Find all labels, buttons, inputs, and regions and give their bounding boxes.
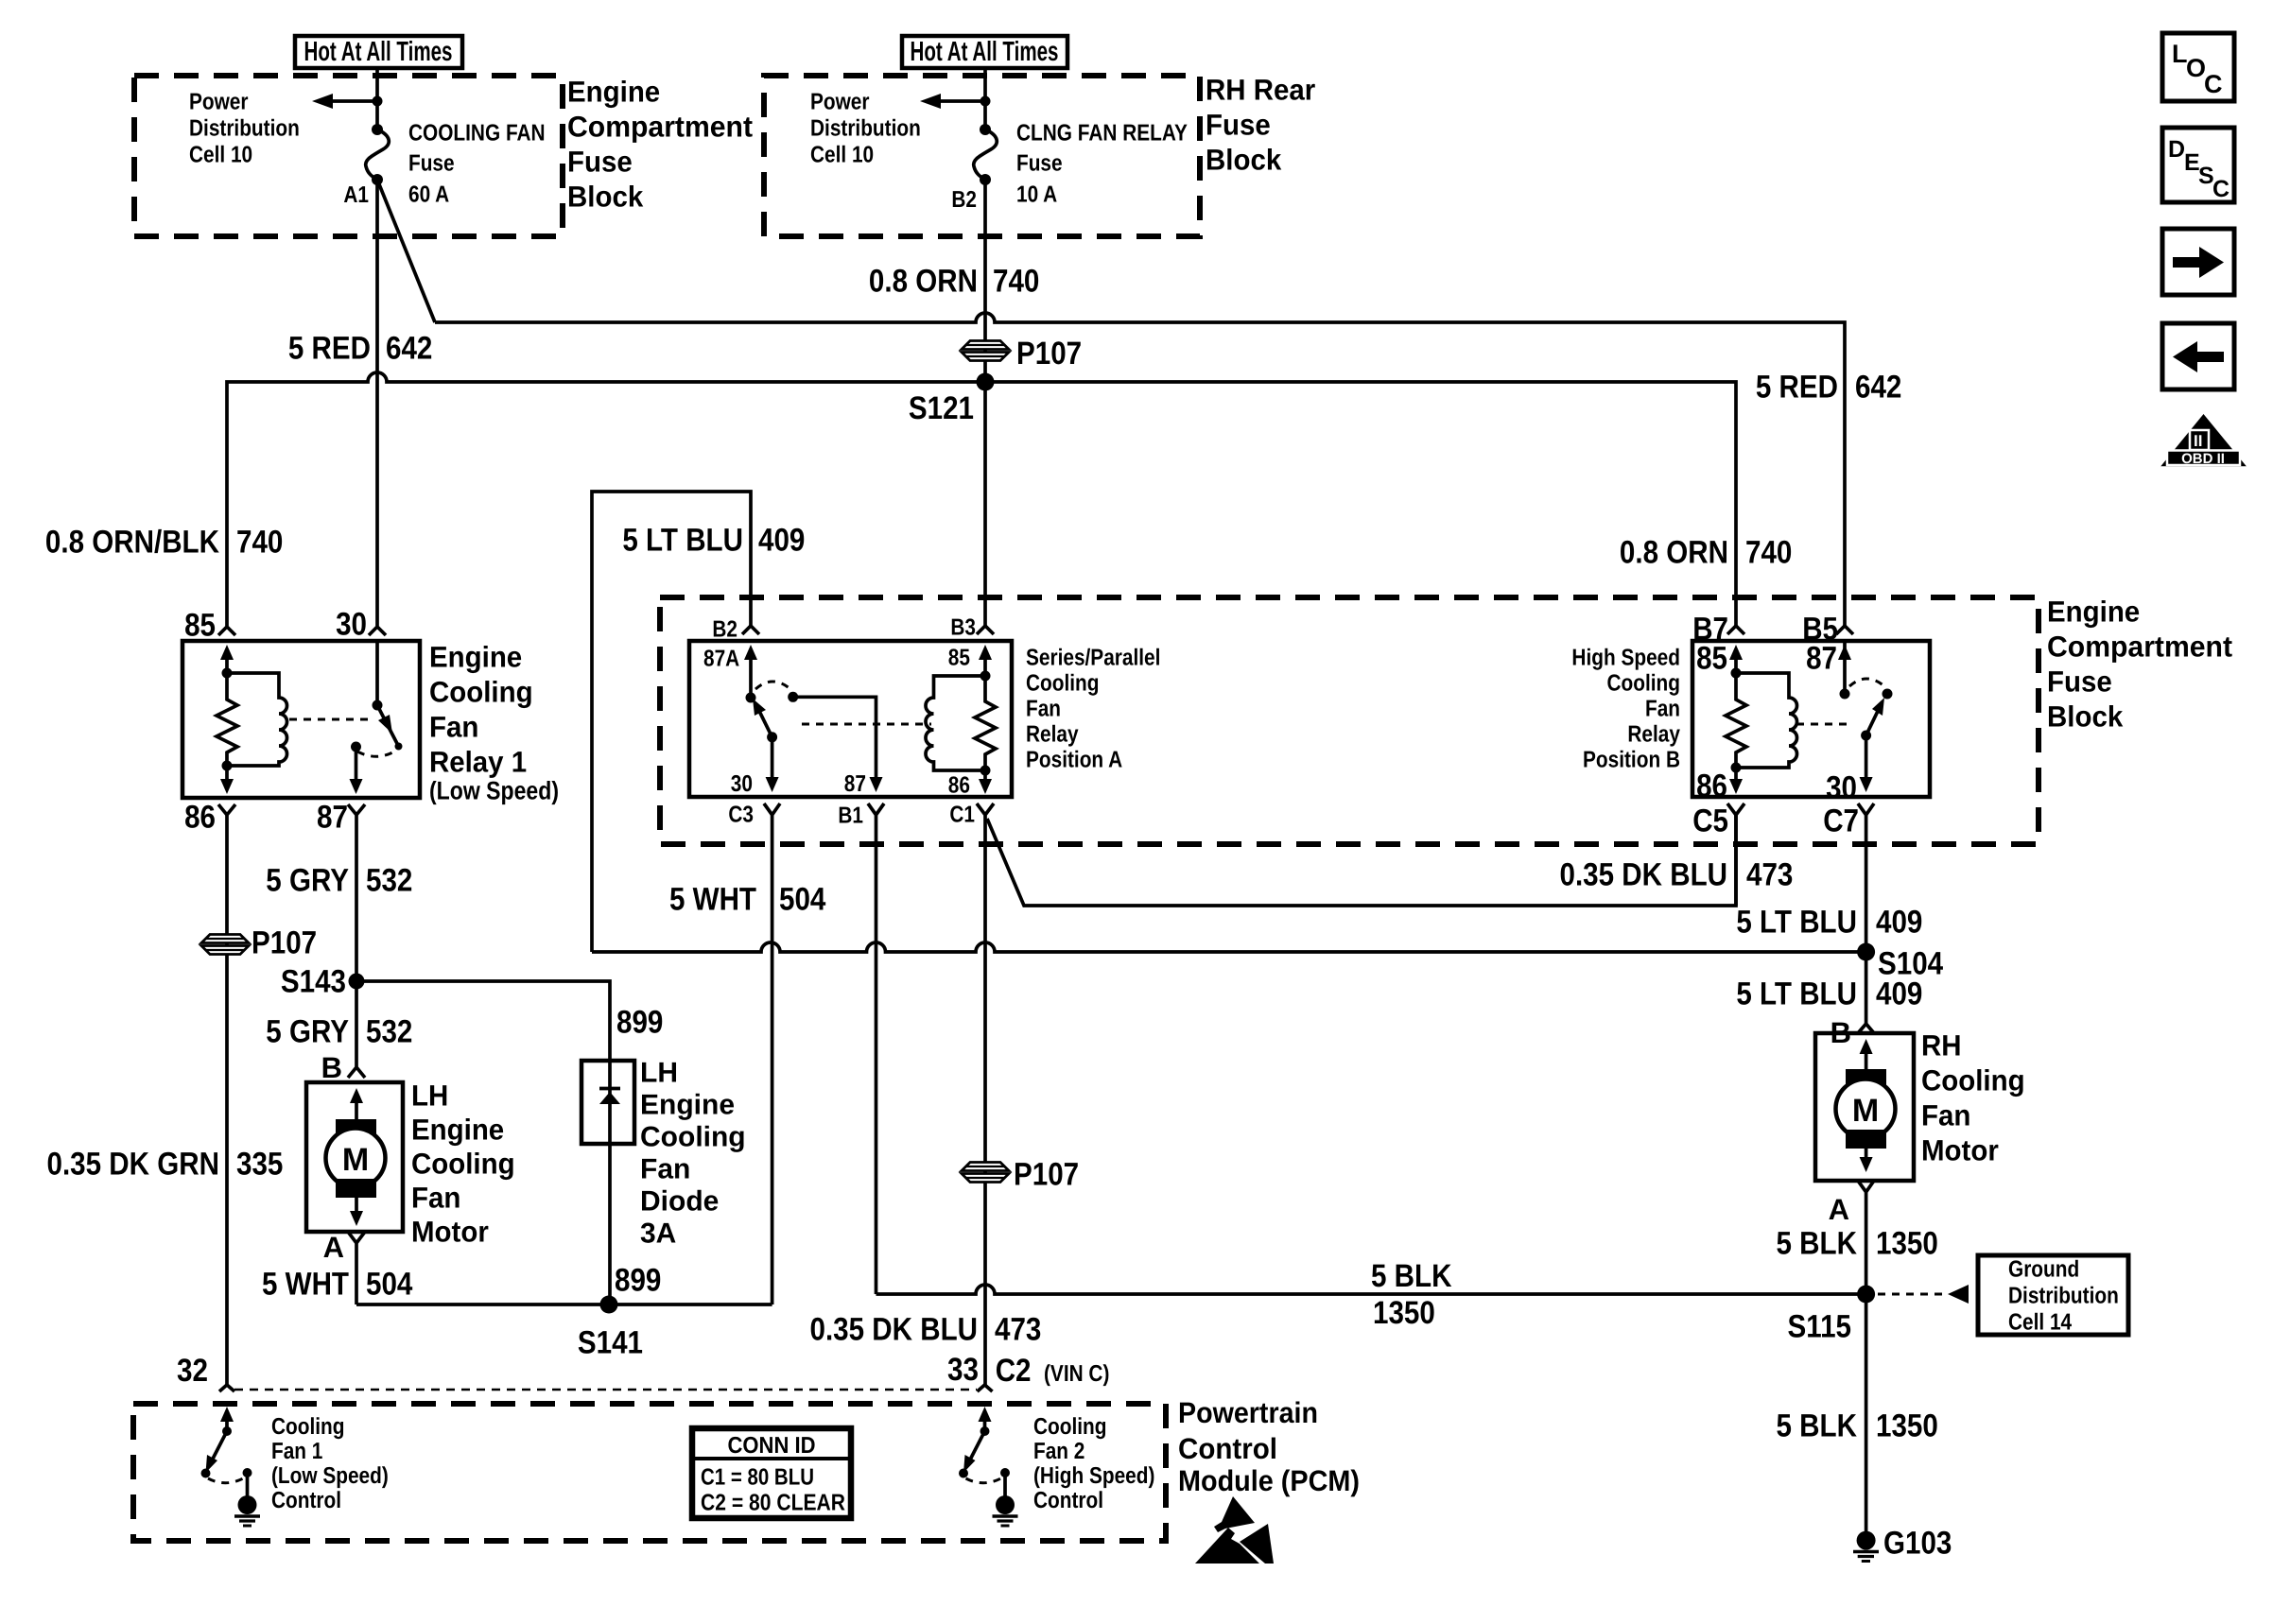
- wire: S143 to diode (899): [356, 981, 610, 1061]
- svg-text:0.35 DK GRN: 0.35 DK GRN: [47, 1147, 220, 1183]
- svg-text:A1: A1: [343, 182, 369, 208]
- svg-text:Position B: Position B: [1583, 748, 1680, 773]
- relay K2 coil-switch dashed link: [802, 723, 931, 726]
- relay K2 pin 87A arrow: [744, 645, 757, 698]
- svg-text:O: O: [2186, 54, 2206, 82]
- label 0.35 DK BLU 473 (bottom): [810, 1312, 1042, 1348]
- svg-text:10 A: 10 A: [1016, 182, 1057, 208]
- svg-text:Engine: Engine: [640, 1090, 735, 1121]
- svg-text:P107: P107: [1016, 336, 1082, 371]
- svg-text:COOLING FAN: COOLING FAN: [408, 121, 546, 147]
- terminal B2 caret: [742, 626, 759, 634]
- svg-text:473: 473: [1746, 857, 1793, 893]
- label: Engine Cooling Fan Relay 1 (Low Speed): [429, 641, 559, 805]
- svg-text:CONN ID: CONN ID: [728, 1433, 816, 1459]
- label 5 WHT 504 (LH motor A): [262, 1267, 412, 1303]
- svg-text:G103: G103: [1883, 1526, 1952, 1562]
- label 5 RED 642 (left): [288, 331, 433, 367]
- LH motor box: [306, 1082, 403, 1232]
- svg-text:C7: C7: [1823, 803, 1859, 839]
- diode CR1 box (LH Engine Cooling Fan Diode 3A): [581, 1061, 634, 1144]
- label 0.35 DK GRN 335: [47, 1147, 284, 1183]
- label 5 GRY 532 (upper): [266, 863, 412, 899]
- svg-text:Cooling: Cooling: [271, 1414, 345, 1440]
- svg-text:Control: Control: [1178, 1432, 1277, 1465]
- svg-text:LH: LH: [640, 1058, 678, 1089]
- DESC icon box: [2162, 128, 2234, 202]
- svg-text:Fan: Fan: [1921, 1099, 1970, 1132]
- terminal C5 caret: [1727, 803, 1744, 906]
- svg-text:85: 85: [184, 608, 216, 644]
- ground (cooling fan 1 control): [234, 1495, 260, 1526]
- svg-text:5 LT BLU: 5 LT BLU: [1736, 976, 1857, 1012]
- label: Series/Parallel Cooling Fan Relay Position A: [1026, 646, 1160, 773]
- diode CR1 symbol: [599, 1061, 620, 1144]
- power distribution arrow (left): [312, 94, 383, 109]
- svg-text:Fuse: Fuse: [1206, 109, 1271, 142]
- svg-text:Module (PCM): Module (PCM): [1178, 1464, 1360, 1497]
- relay K1 switch: [350, 641, 403, 794]
- svg-text:0.8 ORN: 0.8 ORN: [1620, 535, 1728, 571]
- svg-text:Motor: Motor: [411, 1216, 489, 1249]
- svg-text:Hot At All Times: Hot At All Times: [304, 37, 453, 67]
- label: Engine Compartment Fuse Block (top left): [567, 76, 753, 214]
- svg-text:504: 504: [366, 1267, 412, 1303]
- OBD II triangle icon: [2160, 414, 2247, 467]
- terminal 87 caret (bottom): [348, 804, 365, 981]
- svg-text:0.8 ORN: 0.8 ORN: [869, 264, 978, 300]
- relay K3 coil-switch dashed link: [1796, 723, 1851, 726]
- svg-text:Block: Block: [2047, 700, 2124, 734]
- svg-text:Engine: Engine: [567, 76, 660, 109]
- svg-text:5 BLK: 5 BLK: [1777, 1226, 1858, 1262]
- terminal B1 caret: [868, 803, 884, 1294]
- svg-text:740: 740: [993, 264, 1039, 300]
- label: LH Engine Cooling Fan Motor: [411, 1080, 515, 1249]
- label 5 GRY 532 (lower): [266, 1014, 412, 1050]
- svg-text:740: 740: [236, 525, 283, 561]
- label 5 LT BLU 409 (upper): [622, 523, 805, 559]
- svg-text:B2: B2: [712, 617, 737, 643]
- svg-text:5 GRY: 5 GRY: [266, 1014, 349, 1050]
- wire from hot box 2 down to fuse: [983, 68, 987, 130]
- label 0.8 ORN 740 (right): [1620, 535, 1793, 571]
- svg-text:Relay 1: Relay 1: [429, 746, 527, 779]
- relay K3 pin 85 arrow: [1729, 645, 1743, 679]
- svg-text:Cooling: Cooling: [1033, 1414, 1107, 1440]
- svg-text:Distribution: Distribution: [189, 116, 300, 142]
- svg-text:Cell 14: Cell 14: [2008, 1310, 2072, 1336]
- svg-text:30: 30: [336, 607, 367, 643]
- svg-text:Fuse: Fuse: [567, 146, 633, 179]
- svg-text:Fuse: Fuse: [408, 151, 455, 177]
- label: RH Cooling Fan Motor: [1921, 1029, 2025, 1167]
- svg-text:(Low Speed): (Low Speed): [429, 776, 559, 804]
- svg-text:Power: Power: [810, 90, 870, 115]
- svg-text:C1 = 80 BLU: C1 = 80 BLU: [701, 1465, 814, 1491]
- svg-text:C1: C1: [949, 803, 975, 828]
- svg-text:740: 740: [1745, 535, 1792, 571]
- cooling fan 1 control switch: [201, 1407, 252, 1496]
- svg-text:C2: C2: [996, 1353, 1032, 1389]
- svg-text:Cooling: Cooling: [1921, 1064, 2025, 1097]
- wire: fuse A1 diagonal to 5 RED bus: [377, 180, 435, 322]
- LH motor symbol: [326, 1088, 386, 1226]
- svg-text:1350: 1350: [1373, 1295, 1435, 1331]
- svg-text:85: 85: [948, 646, 970, 671]
- svg-text:504: 504: [779, 882, 825, 918]
- svg-text:Cooling: Cooling: [1607, 671, 1681, 697]
- svg-text:Power: Power: [189, 90, 249, 115]
- svg-text:S143: S143: [281, 964, 346, 1000]
- svg-text:Block: Block: [567, 181, 644, 214]
- svg-text:B2: B2: [951, 187, 977, 213]
- svg-text:642: 642: [1855, 370, 1901, 406]
- RH motor symbol: [1836, 1039, 1896, 1172]
- svg-text:Diode: Diode: [640, 1186, 719, 1218]
- terminal B caret (LH motor): [348, 981, 365, 1078]
- svg-text:Cooling: Cooling: [1026, 671, 1100, 697]
- svg-text:409: 409: [758, 523, 805, 559]
- svg-text:5 RED: 5 RED: [288, 331, 371, 367]
- fuse block 2 dashed box (RH Rear Fuse Block): [764, 76, 1200, 236]
- svg-text:0.8 ORN/BLK: 0.8 ORN/BLK: [45, 525, 219, 561]
- wire: S115 down to G103: [1865, 1294, 1868, 1531]
- svg-text:Compartment: Compartment: [567, 111, 753, 144]
- terminal C7 caret: [1858, 803, 1874, 1024]
- terminal B caret (RH motor): [1858, 1024, 1874, 1033]
- power distribution arrow (middle): [920, 94, 991, 109]
- svg-text:High Speed: High Speed: [1571, 646, 1680, 671]
- label 0.8 ORN 740 (top middle): [869, 264, 1040, 300]
- svg-text:Relay: Relay: [1026, 722, 1079, 748]
- svg-text:S115: S115: [1788, 1309, 1852, 1345]
- relay K3 coil arrow down: [1729, 763, 1743, 795]
- svg-text:899: 899: [616, 1005, 663, 1041]
- relay K3 switch: [1838, 641, 1893, 792]
- terminal C3 caret: [764, 803, 780, 1304]
- label: High Speed Cooling Fan Relay Position B: [1571, 646, 1680, 773]
- relay K2 pin 86 arrow: [979, 766, 992, 795]
- terminal B5 caret: [1836, 626, 1853, 634]
- svg-text:Cooling: Cooling: [640, 1122, 746, 1153]
- svg-text:D: D: [2168, 136, 2185, 163]
- label: Cooling Fan 1 (Low Speed) Control: [271, 1414, 389, 1513]
- svg-text:Control: Control: [1033, 1488, 1103, 1513]
- label: LH Engine Cooling Fan Diode 3A: [640, 1058, 746, 1250]
- terminal B3 caret: [977, 626, 994, 634]
- svg-text:5 GRY: 5 GRY: [266, 863, 349, 899]
- svg-text:0.35 DK BLU: 0.35 DK BLU: [1560, 857, 1728, 893]
- relay K2 pin 85 arrow: [979, 645, 992, 682]
- relay K3 box (High Speed Cooling Fan Relay): [1692, 641, 1930, 797]
- wire: 5 LT BLU loop from relay B2 up and over to x=626: [592, 492, 751, 952]
- label: Powertrain Control Module (PCM): [1178, 1396, 1360, 1497]
- ground distribution cell 14 box: [1978, 1255, 2128, 1336]
- svg-text:Position A: Position A: [1026, 748, 1122, 773]
- svg-text:Fuse: Fuse: [2047, 665, 2112, 699]
- label: Engine Compartment Fuse Block (right): [2047, 596, 2232, 734]
- svg-text:1350: 1350: [1876, 1226, 1938, 1262]
- svg-text:5 LT BLU: 5 LT BLU: [1736, 905, 1857, 941]
- right-arrow icon box: [2162, 229, 2234, 295]
- svg-text:86: 86: [184, 800, 216, 836]
- svg-text:S121: S121: [909, 390, 974, 426]
- svg-text:C5: C5: [1692, 803, 1728, 839]
- svg-text:60 A: 60 A: [408, 182, 449, 208]
- label 5 LT BLU 409 (above S104): [1736, 905, 1922, 941]
- connector P107 (left, on 86 wire): [201, 935, 249, 955]
- svg-text:Hot At All Times: Hot At All Times: [911, 37, 1059, 67]
- svg-text:Fan 2: Fan 2: [1033, 1439, 1084, 1464]
- ground G103: [1853, 1531, 1879, 1562]
- hot-at-all-times box 1: [295, 36, 462, 68]
- terminal 85 caret (top): [218, 627, 235, 635]
- svg-text:Cell 10: Cell 10: [810, 143, 874, 168]
- svg-text:Block: Block: [1206, 144, 1282, 177]
- ground distribution dashed reference arrow: [1878, 1285, 1969, 1304]
- svg-text:(Low Speed): (Low Speed): [271, 1463, 389, 1489]
- relay K2 box (Series/Parallel Cooling Fan Relay): [689, 641, 1012, 797]
- relay K2 coil: [926, 676, 985, 770]
- svg-text:P107: P107: [1014, 1157, 1079, 1193]
- svg-text:A: A: [323, 1231, 344, 1264]
- wire: 5 RED 642 bus (y=341) with hop at x=1042, down to relay B5: [435, 313, 1845, 626]
- svg-text:5 BLK: 5 BLK: [1777, 1408, 1858, 1444]
- svg-text:1350: 1350: [1876, 1408, 1938, 1444]
- relay K1 coil: [227, 673, 287, 766]
- svg-text:409: 409: [1876, 905, 1922, 941]
- svg-text:Ground: Ground: [2008, 1257, 2079, 1283]
- svg-text:Cooling: Cooling: [411, 1148, 515, 1181]
- svg-text:(VIN C): (VIN C): [1044, 1361, 1109, 1387]
- RH motor box: [1815, 1033, 1914, 1181]
- junction S141: [600, 1296, 618, 1314]
- svg-text:B1: B1: [838, 803, 863, 829]
- left-arrow icon box: [2162, 323, 2234, 389]
- svg-text:Powertrain: Powertrain: [1178, 1396, 1318, 1429]
- fuse CLNG FAN RELAY 10A: [974, 124, 998, 185]
- terminal A caret (RH motor): [1858, 1181, 1874, 1294]
- svg-text:Fan: Fan: [1026, 697, 1061, 722]
- ESD sensitive symbol: [1195, 1496, 1274, 1564]
- svg-text:Engine: Engine: [429, 641, 522, 674]
- svg-text:87: 87: [1806, 641, 1837, 677]
- svg-text:OBD II: OBD II: [2181, 451, 2225, 467]
- svg-text:RH: RH: [1921, 1029, 1962, 1063]
- svg-text:Fan: Fan: [1645, 697, 1680, 722]
- svg-text:Series/Parallel: Series/Parallel: [1026, 646, 1160, 671]
- svg-text:87: 87: [844, 771, 866, 797]
- svg-text:Fan 1: Fan 1: [271, 1439, 322, 1464]
- wire: fuse A1 straight down to relay1 pin 30: [375, 180, 379, 626]
- terminal 30 caret (top): [369, 627, 386, 635]
- label: Cooling Fan 2 (High Speed) Control: [1033, 1414, 1154, 1513]
- hot-at-all-times box 2: [902, 36, 1067, 68]
- svg-text:5 LT BLU: 5 LT BLU: [622, 523, 743, 559]
- svg-text:B3: B3: [950, 615, 976, 641]
- label 0.8 ORN/BLK 740: [45, 525, 284, 561]
- svg-text:5 BLK: 5 BLK: [1371, 1258, 1452, 1294]
- ground (cooling fan 2 control): [993, 1495, 1018, 1526]
- LOC icon box: [2162, 33, 2234, 101]
- svg-text:5 RED: 5 RED: [1756, 370, 1838, 406]
- wire: 0.8 ORN bus (y=404) from relay1 85 to relay B7, hop at x=399: [227, 372, 1736, 626]
- label 5 RED 642 (right): [1756, 370, 1902, 406]
- svg-text:Fan: Fan: [429, 711, 478, 744]
- wire: 5 BLK ground bus (y=1367) with hop at x=1042: [876, 1285, 1866, 1294]
- fuse COOLING FAN 60A: [366, 124, 390, 185]
- svg-text:5 WHT: 5 WHT: [262, 1267, 349, 1303]
- svg-text:33: 33: [947, 1352, 979, 1388]
- svg-text:5 WHT: 5 WHT: [669, 882, 756, 918]
- svg-text:Fuse: Fuse: [1016, 151, 1063, 177]
- cooling fan 2 control switch: [959, 1407, 1010, 1496]
- junction S121: [977, 373, 995, 391]
- connector P107 (top): [962, 341, 1009, 361]
- engine compartment fuse block dashed box (relays): [660, 597, 2039, 844]
- PCM connector fine dashed line: [234, 1389, 977, 1391]
- svg-text:642: 642: [386, 331, 432, 367]
- wire: diode to S141 (899): [608, 1144, 612, 1304]
- svg-text:C: C: [2212, 176, 2230, 202]
- wire: C1 diagonal to DK BLU link: [987, 815, 1736, 906]
- svg-text:C2 = 80 CLEAR: C2 = 80 CLEAR: [701, 1491, 845, 1516]
- relay K2 switch: [746, 682, 883, 792]
- svg-text:Distribution: Distribution: [2008, 1284, 2119, 1309]
- svg-text:532: 532: [366, 1014, 412, 1050]
- relay K1 box (Engine Cooling Fan Relay 1): [182, 641, 420, 798]
- svg-text:Distribution: Distribution: [810, 116, 921, 142]
- svg-text:32: 32: [177, 1353, 208, 1389]
- relay K1 resistor: [217, 673, 237, 766]
- wire from hot box 1 down to fuse: [375, 68, 379, 130]
- svg-text:S141: S141: [578, 1325, 643, 1361]
- svg-text:Engine: Engine: [411, 1114, 504, 1147]
- svg-text:CLNG FAN RELAY: CLNG FAN RELAY: [1016, 121, 1188, 147]
- wire: 5 LT BLU 409 bus (y=1007) with hops at 815,926,1042 to S104: [592, 942, 1866, 952]
- junction S104: [1857, 943, 1875, 961]
- label 5 WHT 504 (middle): [669, 882, 825, 918]
- svg-text:87: 87: [317, 800, 348, 836]
- label 5 LT BLU 409 (below S104): [1736, 976, 1922, 1012]
- svg-text:87A: 87A: [703, 647, 739, 672]
- wire: LH motor A to S141 to relay K2 C3 (y=1380): [356, 1303, 772, 1306]
- terminal A caret (LH motor): [348, 1232, 365, 1304]
- svg-text:Control: Control: [271, 1488, 341, 1513]
- terminal 33 caret (PCM): [978, 1385, 993, 1391]
- svg-text:Motor: Motor: [1921, 1134, 1999, 1167]
- label: RH Rear Fuse Block: [1206, 74, 1315, 177]
- svg-text:30: 30: [1826, 770, 1857, 806]
- svg-text:RH Rear: RH Rear: [1206, 74, 1315, 107]
- svg-text:86: 86: [1696, 769, 1727, 804]
- fuse block 1 dashed box (Engine Compartment Fuse Block): [134, 76, 563, 236]
- relay K1 coil-switch dashed link: [289, 718, 369, 721]
- svg-text:A: A: [1829, 1193, 1849, 1226]
- svg-text:409: 409: [1876, 976, 1922, 1012]
- label 5 BLK / 1350 (middle, stacked): [1371, 1258, 1452, 1331]
- label: CLNG FAN RELAY Fuse 10 A: [1016, 121, 1188, 208]
- svg-text:M: M: [342, 1142, 369, 1178]
- svg-text:LH: LH: [411, 1080, 448, 1113]
- svg-text:C: C: [2204, 70, 2223, 98]
- terminal C1 caret: [977, 803, 994, 1385]
- svg-text:473: 473: [995, 1312, 1041, 1348]
- junction S115: [1857, 1286, 1875, 1304]
- svg-text:M: M: [1852, 1093, 1879, 1129]
- terminal 86 caret (bottom): [218, 804, 235, 1385]
- svg-text:Fan: Fan: [640, 1154, 690, 1185]
- label 0.35 DK BLU 473 (right): [1560, 857, 1794, 893]
- junction S143: [349, 974, 365, 990]
- label: COOLING FAN Fuse 60 A: [408, 121, 546, 208]
- svg-text:335: 335: [236, 1147, 283, 1183]
- svg-text:(High Speed): (High Speed): [1033, 1463, 1154, 1489]
- label: Power Distribution Cell 10 (middle): [810, 90, 921, 168]
- terminal B7 caret: [1727, 626, 1744, 634]
- relay K1 coil arrow down: [220, 761, 234, 795]
- svg-text:Fan: Fan: [411, 1182, 460, 1215]
- CONN ID table: [692, 1428, 851, 1518]
- svg-text:P107: P107: [252, 925, 317, 961]
- svg-text:Compartment: Compartment: [2047, 631, 2232, 664]
- svg-text:3A: 3A: [640, 1218, 676, 1250]
- label 5 BLK 1350 (S115-G103): [1777, 1408, 1938, 1444]
- PCM dashed box (Powertrain Control Module): [133, 1404, 1166, 1541]
- svg-text:C3: C3: [728, 803, 754, 828]
- label 5 BLK 1350 (RH motor A): [1777, 1226, 1938, 1262]
- svg-text:B: B: [321, 1051, 342, 1084]
- svg-text:Relay: Relay: [1627, 722, 1680, 748]
- svg-text:0.35 DK BLU: 0.35 DK BLU: [810, 1312, 979, 1348]
- svg-text:532: 532: [366, 863, 412, 899]
- wire fuse B2 down to S121 and on to relay B3: [983, 180, 987, 626]
- relay K3 coil: [1736, 673, 1797, 768]
- svg-text:30: 30: [731, 771, 753, 797]
- svg-text:85: 85: [1696, 641, 1727, 677]
- connector P107 (bottom, on C1 wire): [962, 1163, 1009, 1183]
- svg-text:Cooling: Cooling: [429, 676, 533, 709]
- svg-text:Cell 10: Cell 10: [189, 143, 252, 168]
- svg-text:86: 86: [948, 773, 970, 799]
- terminal 32 caret (PCM): [219, 1385, 234, 1391]
- svg-text:Engine: Engine: [2047, 596, 2140, 629]
- relay K1 coil arrow up: [220, 645, 234, 679]
- relay K2 resistor: [975, 676, 996, 770]
- relay K3 resistor: [1726, 673, 1746, 768]
- svg-text:899: 899: [615, 1263, 661, 1299]
- label: Power Distribution Cell 10 (left): [189, 90, 300, 168]
- svg-text:II: II: [2194, 432, 2202, 450]
